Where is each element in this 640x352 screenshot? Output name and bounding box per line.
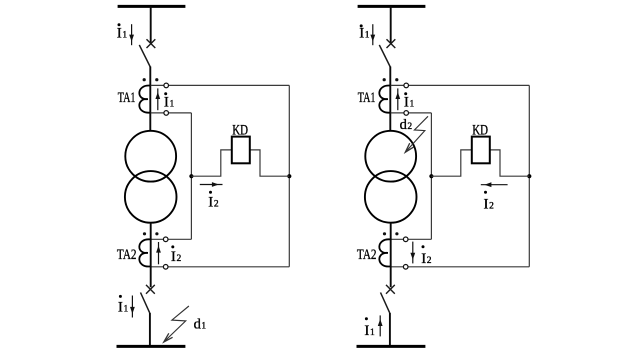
svg-text:KD: KD — [472, 122, 488, 138]
breaker (bottom right): X contact mark — [386, 285, 395, 294]
wire: outer secondary riser (left) — [151, 85, 290, 266]
node: junction of relay branch, inner side (left) — [189, 174, 193, 178]
wire: transformer to TA2 to bottom breaker (right) — [390, 223, 392, 288]
label KD (right) — [472, 122, 488, 138]
wire: relay branch left step (right) — [431, 150, 471, 176]
wire: breaker to transformer primary, through TA1 (left) — [149, 67, 151, 132]
svg-text:I: I — [164, 94, 169, 110]
fault marker d1: lightning arrow to bottom busbar (external fault) — [164, 306, 189, 342]
label KD (left) — [232, 122, 248, 138]
svg-text:I: I — [359, 26, 364, 42]
svg-text:1: 1 — [122, 31, 127, 41]
CT TA2 (left): primary winding bumps — [139, 239, 150, 266]
svg-text:TA2: TA2 — [117, 247, 137, 263]
svg-text:2: 2 — [489, 202, 494, 212]
wire: TA1 secondary bottom lead (right) — [391, 112, 432, 114]
terminal: TA2 secondary top terminal (left) — [163, 237, 168, 242]
breaker (bottom left): open blade — [141, 293, 150, 314]
label TA1 (left) — [118, 90, 136, 106]
node: junction of relay branch, outer side (left) — [287, 174, 291, 178]
arrow: İ1 direction up (bottom feeder, right) — [378, 315, 383, 336]
wire: TA1 secondary top lead (left) — [151, 84, 290, 86]
node: junction of relay branch, outer side (right) — [527, 174, 531, 178]
arrow: İ1 direction down (bottom feeder, left) — [130, 296, 135, 318]
breaker (bottom right): open blade — [381, 293, 390, 314]
svg-text:1: 1 — [201, 321, 206, 331]
fault marker d2: lightning arrow into transformer winding (internal fault) — [405, 116, 428, 152]
current label İ2 secondary of TA2 (left) — [171, 245, 182, 265]
node: junction of relay branch, inner side (right) — [429, 174, 433, 178]
arrow: İ1 direction down (top feeder, left) — [129, 24, 134, 45]
CT TA2 (left): polarity dots — [143, 232, 159, 235]
CT TA1 (left): polarity dots — [143, 78, 159, 81]
arrow: TA2 secondary current up (left) — [156, 242, 161, 264]
terminal: TA1 secondary top terminal (right) — [404, 83, 409, 88]
current label İ1 secondary of TA1 (right) — [404, 92, 415, 110]
svg-text:I: I — [421, 251, 426, 267]
current label İ1 with down arrow (bottom feeder, left) — [118, 295, 129, 315]
svg-text:1: 1 — [370, 328, 375, 338]
transformer T (right): winding 2 circle — [365, 171, 417, 223]
arrow: İ1 direction down (top feeder, right) — [370, 24, 375, 45]
wire: breaker to transformer primary, through TA1 (right) — [389, 67, 391, 132]
label TA2 (left) — [117, 247, 137, 263]
breaker (top left): X contact mark — [147, 39, 156, 48]
arrow: TA1 secondary current up (left) — [155, 88, 160, 110]
current label İ2 at relay branch (right) — [484, 191, 495, 213]
CT TA2 (right): primary winding bumps — [379, 239, 390, 266]
svg-text:I: I — [118, 299, 123, 315]
current label İ1 with up arrow (bottom feeder, right) — [364, 317, 375, 339]
svg-text:TA1: TA1 — [358, 90, 376, 106]
svg-text:2: 2 — [427, 256, 432, 266]
breaker (top left): open blade — [139, 45, 150, 67]
svg-text:1: 1 — [410, 99, 415, 109]
svg-text:d: d — [194, 316, 202, 332]
wire: outer secondary riser (right) — [391, 85, 530, 266]
arrow: differential current İ2 flowing left into relay node (right) — [481, 182, 508, 187]
breaker (top right): X contact mark — [387, 39, 396, 48]
bus: bottom busbar (right circuit) — [357, 345, 426, 348]
terminal: TA2 secondary bottom terminal (left) — [163, 265, 168, 270]
relay KD (left): coil box — [232, 137, 250, 164]
CT TA1 (right): primary winding bumps — [379, 86, 390, 113]
CT TA1 (left): primary winding bumps — [139, 86, 150, 113]
wire: transformer to TA2 to bottom breaker (left) — [150, 223, 152, 288]
wire: relay branch right step (left) — [250, 150, 289, 176]
label TA1 (right) — [358, 90, 376, 106]
svg-text:I: I — [404, 94, 409, 110]
svg-text:I: I — [484, 197, 489, 213]
current label İ1 secondary of TA1 (left) — [164, 92, 175, 110]
svg-text:I: I — [364, 323, 369, 339]
svg-text:1: 1 — [170, 99, 175, 109]
label d2 — [400, 117, 413, 133]
svg-text:I: I — [117, 26, 122, 42]
svg-text:KD: KD — [232, 122, 248, 138]
wire: relay branch left step (left) — [191, 150, 231, 176]
terminal: TA1 secondary top terminal (left) — [164, 83, 169, 88]
svg-text:TA2: TA2 — [357, 247, 377, 263]
breaker (bottom left): X contact mark — [146, 285, 155, 294]
current label İ1 with down arrow (top feeder, left) — [117, 23, 128, 41]
arrow: TA1 secondary current up (right) — [395, 88, 400, 110]
svg-text:1: 1 — [124, 304, 129, 314]
transformer T (right): winding 1 circle — [365, 131, 416, 182]
label d1 — [194, 316, 207, 332]
transformer T (left): winding 1 circle — [125, 131, 176, 182]
svg-text:TA1: TA1 — [118, 90, 136, 106]
transformer T (left): winding 2 circle — [125, 171, 177, 223]
svg-text:I: I — [208, 194, 213, 210]
CT TA2 (right): polarity dots — [383, 232, 399, 235]
bus: bottom busbar (left circuit) — [117, 345, 186, 348]
current label İ2 at relay branch (left) — [208, 191, 219, 211]
wire: bottom breaker to bottom busbar (left) — [149, 313, 151, 346]
relay KD (right): coil box — [472, 137, 490, 164]
svg-text:2: 2 — [177, 254, 182, 264]
wire: inner secondary riser (left) — [151, 113, 192, 239]
svg-text:2: 2 — [214, 199, 219, 209]
wire: feeder from top busbar to breaker (left) — [150, 6, 152, 43]
bus: top busbar (right circuit) — [358, 5, 426, 8]
svg-text:2: 2 — [407, 122, 412, 132]
bus: top busbar (left circuit) — [118, 5, 186, 8]
wire: relay branch right step (right) — [490, 150, 530, 176]
wire: feeder from top busbar to breaker (right) — [390, 6, 392, 43]
wire: bottom breaker to bottom busbar (right) — [389, 313, 391, 346]
terminal: TA1 secondary bottom terminal (right) — [404, 111, 409, 116]
arrow: differential current İ2 flowing right into relay node (left) — [200, 182, 223, 187]
terminal: TA1 secondary bottom terminal (left) — [164, 111, 169, 116]
svg-text:1: 1 — [365, 31, 370, 41]
svg-text:d: d — [400, 117, 408, 133]
terminal: TA2 secondary top terminal (right) — [403, 237, 408, 242]
current label İ1 with down arrow (top feeder, right) — [359, 24, 370, 41]
current label İ2 secondary of TA2 (right) — [421, 245, 432, 267]
wire: inner secondary riser (right) — [391, 113, 432, 239]
terminal: TA2 secondary bottom terminal (right) — [403, 265, 408, 270]
label TA2 (right) — [357, 247, 377, 263]
CT TA1 (right): polarity dots — [383, 78, 399, 81]
svg-text:I: I — [171, 249, 176, 265]
arrow: TA2 secondary current down (right) — [410, 242, 415, 264]
wire: TA1 secondary top lead (right) — [391, 84, 530, 86]
breaker (top right): open blade — [379, 45, 390, 67]
wire: TA1 secondary bottom lead (left) — [151, 112, 192, 114]
